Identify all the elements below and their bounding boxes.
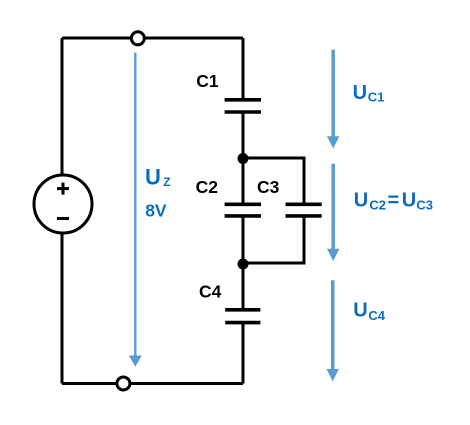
node B junction dot (238, 259, 249, 270)
wire left vertical bottom (61, 232, 64, 384)
wire branch right vertical upper (303, 158, 306, 205)
wire node B to C4 (242, 264, 245, 310)
capacitor C2 (225, 204, 261, 216)
svg-text:C2: C2 (196, 177, 219, 197)
plus sign (57, 183, 69, 195)
arrow Uz vertical line (134, 53, 136, 357)
svg-text:8V: 8V (145, 201, 167, 221)
arrow Uc1 head (327, 136, 339, 148)
voltage source U1 circle (34, 175, 92, 233)
wire branch top horizontal (243, 157, 306, 160)
wire left vertical top (61, 38, 64, 176)
arrow Uz head (129, 356, 142, 367)
svg-text:UC1: UC1 (353, 82, 385, 105)
svg-text:C4: C4 (199, 282, 222, 302)
wire branch right vertical lower (303, 216, 306, 265)
arrow Uc2 head (327, 249, 339, 261)
capacitor C1 (225, 100, 261, 112)
svg-text:UZ: UZ (145, 165, 171, 190)
svg-text:C1: C1 (196, 71, 219, 91)
minus sign (57, 217, 69, 220)
wire bottom rail (62, 382, 243, 385)
arrow Uc2 line (331, 164, 335, 250)
wire branch bottom horizontal (243, 262, 304, 265)
terminal bottom open circle (117, 377, 130, 390)
capacitor C3 (286, 204, 322, 216)
wire top rail (62, 37, 243, 40)
arrow Uc4 head (327, 369, 339, 381)
node A junction dot (238, 153, 249, 164)
terminal top open circle (131, 32, 144, 45)
svg-text:C3: C3 (257, 177, 280, 197)
capacitor C4 (225, 310, 260, 323)
wire C1 to node A (242, 112, 245, 159)
wire C4 to bottom rail (242, 323, 245, 384)
arrow Uc4 line (331, 280, 335, 370)
wire C2 to node B (242, 216, 245, 265)
arrow Uc1 line (331, 50, 335, 138)
svg-text:UC2=UC3: UC2=UC3 (354, 190, 433, 213)
wire main branch C1 top (242, 38, 245, 100)
svg-text:UC4: UC4 (353, 300, 386, 323)
wire node A to C2 (242, 159, 245, 205)
